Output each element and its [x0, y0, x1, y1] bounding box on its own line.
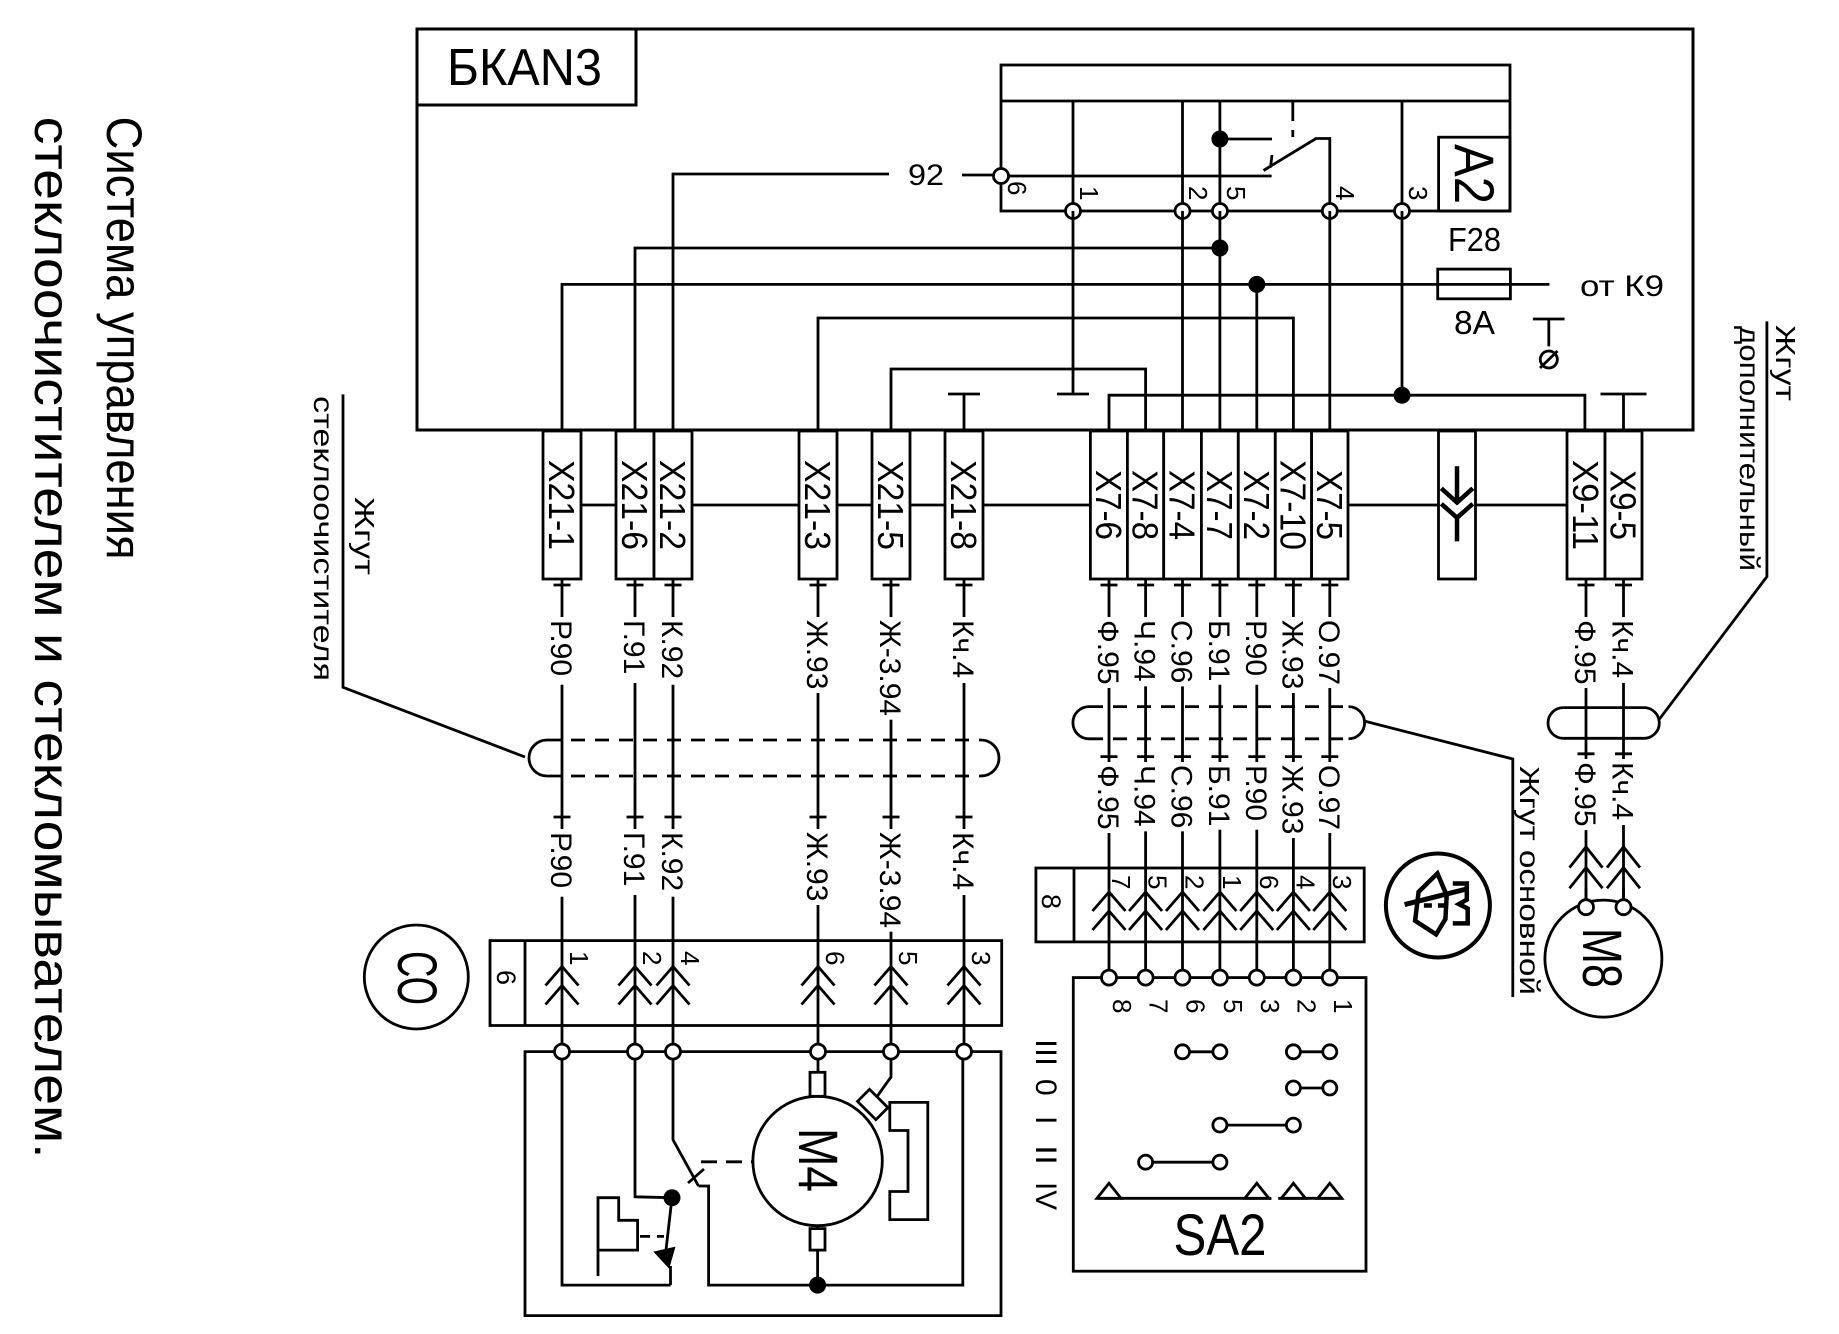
plug strip 8 contact at Р.90: [1240, 892, 1273, 930]
wire С.96 lower label: [1178, 762, 1187, 831]
wire К.92 lower label: [669, 829, 678, 897]
parking contact lead: [669, 1266, 672, 1285]
svg-text:Кч.4: Кч.4: [1606, 620, 1639, 678]
open-end symbol stem: [1547, 319, 1550, 346]
svg-text:X21-3: X21-3: [797, 460, 838, 550]
wire Ф.95 through plug 8: [1108, 868, 1111, 970]
svg-text:стеклоочистителя: стеклоочистителя: [308, 396, 339, 681]
relay A2 top divider: [1001, 100, 1510, 103]
relay pin 5 circle: [1212, 204, 1227, 219]
contact arm from K.92: [673, 1059, 699, 1186]
splice connector box: [1439, 431, 1476, 579]
svg-text:Система управления: Система управления: [96, 117, 152, 560]
wire Р.90 upper tick: [1248, 584, 1265, 587]
main harness capsule: [1073, 707, 1089, 739]
plug strip 6 contact at Г.91: [619, 967, 652, 1005]
svg-text:СО: СО: [386, 951, 449, 1005]
wire К.92 upper tick: [665, 584, 682, 587]
SA2 rotor triangle 1: [1097, 1183, 1121, 1198]
svg-text:Р.90: Р.90: [1239, 765, 1272, 821]
wire Ф.95 upper tick: [1578, 584, 1595, 587]
wire Ж-3.94 through plug 6: [890, 941, 893, 1045]
wiper harness leader: [343, 394, 525, 757]
svg-text:X21-6: X21-6: [614, 460, 655, 550]
relay pin 5 internal wire: [1219, 101, 1222, 211]
wire Б.91 upper tick: [1211, 584, 1228, 587]
svg-text:X7-2: X7-2: [1236, 470, 1277, 540]
connector pin X7-10 box: [1275, 431, 1311, 579]
wire Р.90 lower label: [558, 829, 567, 897]
wire С.96 upper segment: [1181, 579, 1184, 868]
svg-text:Ф.95: Ф.95: [1568, 620, 1601, 685]
motor M4 circle: [753, 1096, 882, 1225]
svg-text:92: 92: [908, 159, 944, 192]
svg-text:X7-10: X7-10: [1272, 460, 1313, 550]
connector pin X7-6 box: [1090, 431, 1127, 579]
svg-text:Жгут основной: Жгут основной: [1514, 766, 1545, 995]
motor unit pin circle at Г.91: [628, 1044, 643, 1059]
svg-text:3: 3: [1327, 875, 1357, 889]
svg-text:1: 1: [564, 951, 594, 965]
svg-text:2: 2: [1183, 186, 1213, 200]
additional harness capsule: [1548, 708, 1563, 739]
washer motor lead a: [1585, 888, 1588, 907]
svg-text:X7-4: X7-4: [1162, 470, 1203, 540]
connector pin X21-1 box: [543, 431, 581, 579]
wire G.91 inside unit: [635, 1059, 672, 1198]
svg-text:7: 7: [1106, 875, 1136, 889]
connector pin X7-4 box: [1164, 431, 1202, 579]
splice connector symbol: [1441, 466, 1473, 541]
svg-text:3: 3: [1255, 999, 1285, 1013]
plug strip 6 contact at Ж-3.94: [875, 967, 908, 1005]
wire Р.90 upper label: [558, 617, 567, 685]
main harness leader: [1365, 721, 1513, 997]
wire Ф.95 upper label: [1582, 617, 1591, 688]
svg-text:Ж.93: Ж.93: [1275, 620, 1308, 689]
wire Б.91 upper label: [1215, 617, 1224, 685]
wire Ч.94 upper segment: [1144, 579, 1147, 868]
wire Р.90 upper tick: [554, 584, 571, 587]
svg-text:5: 5: [893, 951, 923, 965]
svg-text:X21-1: X21-1: [541, 460, 582, 550]
wire Р.90 lower tick: [554, 816, 571, 819]
wire Кч.4 lower label: [1619, 759, 1628, 825]
junction X7-2 net: [1248, 276, 1265, 293]
motor unit pin circle at Ж.93: [811, 1044, 826, 1059]
wire Б.91 upper segment: [1219, 579, 1222, 868]
switch SA2 pin circle 3: [1249, 970, 1264, 985]
switch SA2 pin circle 1: [1322, 970, 1337, 985]
svg-text:Б.91: Б.91: [1202, 765, 1235, 826]
svg-text:3: 3: [966, 951, 996, 965]
terminator bar pin1: [1057, 393, 1089, 396]
mechanical link motor dashes: [701, 1160, 753, 1163]
svg-text:X9-5: X9-5: [1603, 470, 1644, 540]
wire pin4 down to X7-5: [1328, 211, 1331, 431]
wire Кч.4 upper tick: [1615, 584, 1632, 587]
svg-text:С.96: С.96: [1165, 765, 1198, 828]
wire Кч.4 upper label: [960, 617, 969, 683]
wire О.97 lower label: [1325, 762, 1334, 833]
wire Ф.95 upper tick: [1101, 584, 1118, 587]
wire О.97 lower tick: [1321, 755, 1338, 758]
wire О.97 upper tick: [1321, 584, 1338, 587]
relay pin 1 internal wire: [1072, 101, 1075, 211]
svg-text:3: 3: [1403, 186, 1433, 200]
relay A2 designator box: [1439, 137, 1510, 211]
svg-text:X7-6: X7-6: [1088, 470, 1129, 540]
wire О.97 upper segment: [1328, 579, 1331, 868]
connector pin X7-7 box: [1201, 431, 1238, 579]
svg-text:F28: F28: [1448, 221, 1501, 258]
svg-text:5: 5: [1143, 875, 1173, 889]
switch SA2 pin circle 7: [1138, 970, 1153, 985]
wiper harness capsule: [529, 740, 547, 776]
svg-text:4: 4: [1330, 186, 1360, 200]
svg-text:8: 8: [1107, 999, 1137, 1013]
washer motor lead b: [1622, 888, 1625, 907]
wire О.97 through plug 8: [1328, 868, 1331, 970]
svg-text:6: 6: [491, 970, 521, 985]
module BKAN3 outline: [417, 29, 1693, 430]
wire С.96 upper tick: [1174, 584, 1191, 587]
wire Ж-3.94 upper tick: [883, 584, 900, 587]
svg-text:Ф.95: Ф.95: [1091, 620, 1124, 685]
wire Ч.94 upper label: [1141, 617, 1150, 686]
wire К.92 upper segment: [672, 579, 675, 941]
svg-text:6: 6: [1181, 999, 1211, 1013]
wire Ж-3.94 upper label: [887, 617, 896, 720]
wire Ч.94 through plug 8: [1144, 868, 1147, 970]
wire Кч.4 upper label: [1619, 617, 1628, 683]
svg-text:Кч.4: Кч.4: [946, 620, 979, 678]
plug strip 8 contact at Ч.94: [1129, 892, 1162, 930]
svg-text:Б.91: Б.91: [1202, 620, 1235, 681]
svg-text:2: 2: [637, 951, 667, 965]
washer motor contact Ф.95: [1570, 847, 1603, 888]
plug strip 8 contact at Ф.95: [1093, 892, 1126, 930]
wire Г.91 upper tick: [627, 584, 644, 587]
terminator bar X21-8: [948, 393, 980, 396]
wire Р.90 through plug 8: [1255, 868, 1258, 970]
svg-text:IV: IV: [1029, 1182, 1062, 1210]
connector pin X9-5 box: [1605, 431, 1642, 579]
wire Р.90 through plug 6: [561, 941, 564, 1045]
svg-text:6: 6: [1254, 875, 1284, 889]
wire Г.91 upper label: [631, 617, 640, 683]
washer icon arm: [1405, 889, 1469, 905]
junction pin3 net: [1394, 387, 1411, 404]
wire pin2 down to X7-4: [1181, 211, 1184, 431]
washer pump designator circle CO: [364, 925, 468, 1029]
svg-text:X21-5: X21-5: [870, 460, 911, 550]
svg-text:6: 6: [820, 951, 850, 965]
svg-text:5: 5: [1221, 186, 1251, 200]
connector pin X7-2 box: [1238, 431, 1275, 579]
svg-text:Г.91: Г.91: [617, 620, 650, 674]
motor M4 top lead: [817, 1059, 820, 1096]
switch SA2 pin circle 2: [1286, 970, 1301, 985]
wire Кч.4 lower tick: [956, 816, 973, 819]
contact path to motor minus: [699, 1186, 818, 1285]
wire pin5 net down to X7-7: [1219, 211, 1222, 431]
wire Ж.93 upper label: [814, 617, 823, 693]
svg-text:Ж.93: Ж.93: [1275, 765, 1308, 834]
wire Кч.4 upper segment: [963, 579, 966, 941]
svg-text:III: III: [1029, 1039, 1062, 1066]
wire X7-2 branch: [1255, 284, 1258, 431]
svg-text:Г.91: Г.91: [617, 832, 650, 886]
SA2 position IV bar b: [1278, 1197, 1342, 1200]
wire X21-6 to relay pin 5: [635, 248, 1220, 431]
wire Р.90 lower label: [1252, 762, 1261, 830]
svg-text:Жгут: Жгут: [1770, 325, 1801, 401]
relay pin 2 circle: [1175, 204, 1190, 219]
switch SA2 pin circle 5: [1212, 970, 1227, 985]
SA2 rotor triangle 4: [1318, 1183, 1342, 1198]
wire К.92 lower tick: [665, 816, 682, 819]
plug strip 6 contact at Ж.93: [802, 967, 835, 1005]
wire Кч.4 lower tick: [1615, 752, 1632, 755]
wire X21-1 to fuse F28: [562, 284, 1438, 431]
wire Ч.94 lower label: [1141, 762, 1150, 831]
wire motor minus to pin 3: [818, 1059, 963, 1285]
wire Ж.93 upper tick: [1285, 584, 1302, 587]
svg-text:Кч.4: Кч.4: [1606, 762, 1639, 820]
relay pin 4 circle: [1322, 204, 1337, 219]
wire Ж.93 upper segment: [1292, 579, 1295, 868]
relay pin 3 internal wire: [1401, 101, 1404, 211]
washer icon dashes: [1424, 903, 1450, 908]
svg-text:К.92: К.92: [655, 832, 688, 891]
wire X21-8 stub: [963, 394, 966, 431]
motor M4 third brush terminal: [857, 1089, 887, 1119]
open-end symbol bar: [1533, 318, 1565, 321]
wire Ж.93 through plug 6: [817, 941, 820, 1045]
wire Г.91 lower label: [631, 829, 640, 895]
wire Ж.93 upper label: [1289, 617, 1298, 693]
wire Ж-3.94 lower label: [887, 829, 896, 932]
wire Кч.4 upper segment: [1622, 579, 1625, 900]
wire О.97 upper label: [1325, 617, 1334, 688]
svg-text:4: 4: [1290, 875, 1320, 889]
wire Ж.93 through plug 8: [1292, 868, 1295, 970]
relay contact NC wire from pin 6: [1001, 175, 1272, 178]
svg-text:4: 4: [675, 951, 705, 965]
relay contact NC tick: [1271, 155, 1273, 168]
motor M4 bottom terminal: [810, 1229, 825, 1251]
svg-text:6: 6: [1002, 181, 1032, 195]
wire X21-3 to X7-10: [818, 318, 1293, 431]
wire Ж.93 upper segment: [817, 579, 820, 941]
motor unit pin circle at Кч.4: [957, 1044, 972, 1059]
svg-text:5: 5: [1218, 999, 1248, 1013]
wire to K9: [1510, 283, 1549, 286]
wire Г.91 through plug 6: [634, 941, 637, 1045]
motor M8 terminal a: [1579, 900, 1594, 915]
motor M8 terminal b: [1616, 900, 1631, 915]
washer icon jet: [1453, 884, 1468, 924]
wire Ж.93 lower label: [1289, 762, 1298, 838]
wire С.96 through plug 8: [1181, 868, 1184, 970]
wire Ч.94 lower tick: [1137, 755, 1154, 758]
wire С.96 lower tick: [1174, 755, 1191, 758]
wire Ж.93 upper tick: [810, 584, 827, 587]
svg-text:2: 2: [1180, 875, 1210, 889]
svg-text:стеклоочистителем и стекломыва: стеклоочистителем и стекломывателем.: [24, 117, 80, 1159]
wire Ч.94 upper tick: [1137, 584, 1154, 587]
plug strip 6 box: [490, 941, 1002, 1026]
parking contact arm: [666, 1198, 672, 1250]
svg-text:Ж.93: Ж.93: [800, 832, 833, 901]
open-end symbol o-slash: [1540, 351, 1558, 368]
svg-text:Ч.94: Ч.94: [1128, 620, 1161, 682]
motor M4 bottom lead: [816, 1226, 819, 1285]
wire X9-5 stub: [1622, 394, 1625, 431]
motor unit pin circle at К.92: [666, 1044, 681, 1059]
wire Р.90 upper segment: [1255, 579, 1258, 868]
motor M4 third brush lead: [876, 1059, 891, 1098]
wire Р.90 lower tick: [1248, 755, 1265, 758]
svg-text:С.96: С.96: [1165, 620, 1198, 683]
SA2 position IV bar a: [1098, 1197, 1272, 1200]
svg-text:8: 8: [1036, 894, 1066, 909]
washer icon shield: [1415, 873, 1447, 934]
terminator bar X9-5: [1601, 393, 1647, 396]
plug strip 8 contact at Ж.93: [1277, 892, 1310, 930]
relay pin 2 internal wire: [1181, 101, 1184, 211]
wire Кч.4 through plug 6: [963, 941, 966, 1045]
fuse F28 body: [1438, 269, 1511, 299]
wire Г.91 upper segment: [634, 579, 637, 941]
motor unit pin circle at Р.90: [555, 1044, 570, 1059]
wire Ф.95 upper label: [1105, 617, 1114, 688]
wire Ж.93 lower label: [814, 829, 823, 905]
wire Б.91 lower label: [1215, 762, 1224, 830]
wire R.90 inside unit: [562, 1059, 671, 1285]
wire 92 to pin 6: [962, 174, 994, 177]
svg-text:1: 1: [1217, 875, 1247, 889]
svg-text:Жгут: Жгут: [349, 497, 380, 575]
wire Ф.95 lower label: [1105, 762, 1114, 833]
SA2 position II contacts: [1139, 1155, 1153, 1169]
svg-text:Кч.4: Кч.4: [946, 832, 979, 890]
connector pin X21-5 box: [872, 431, 910, 579]
wire Б.91 lower tick: [1211, 755, 1228, 758]
parking cam profile: [598, 1198, 638, 1276]
relay pin 1 circle: [1066, 204, 1081, 219]
svg-text:Р.90: Р.90: [544, 832, 577, 888]
motor M4 top terminal: [810, 1072, 825, 1096]
plug strip 8 contact at С.96: [1166, 892, 1199, 930]
motor M4 stator segment: [890, 1102, 928, 1219]
fuse F28 wire through: [1438, 283, 1511, 286]
svg-text:А2: А2: [1443, 144, 1506, 204]
wire Р.90 upper label: [1252, 617, 1261, 685]
wire Ф.95 lower label: [1582, 759, 1591, 830]
wire X21-5 to X7-8: [891, 369, 1146, 431]
wire Ж-3.94 upper segment: [890, 579, 893, 941]
svg-text:Ф.95: Ф.95: [1568, 762, 1601, 827]
svg-text:8А: 8А: [1454, 304, 1495, 341]
contact arm tick: [688, 1169, 704, 1183]
junction motor minus: [809, 1277, 826, 1294]
connector pin X21-6 box: [616, 431, 654, 579]
wire pin1 stub: [1072, 211, 1075, 394]
SA2 position 0 contacts: [1286, 1081, 1300, 1095]
wire Ф.95 lower tick: [1101, 755, 1118, 758]
plug strip 8 box: [1036, 868, 1364, 942]
svg-text:2: 2: [1291, 999, 1321, 1013]
svg-text:Ж.93: Ж.93: [800, 620, 833, 689]
svg-text:Р.90: Р.90: [1239, 620, 1272, 676]
svg-text:X7-8: X7-8: [1125, 470, 1166, 540]
motor unit pin circle at Ж-3.94: [884, 1044, 899, 1059]
relay actuation dashed link: [1291, 101, 1294, 137]
washer motor contact Кч.4: [1607, 847, 1640, 888]
switch SA2 box: [1073, 978, 1366, 1272]
plug strip 6 contact at Р.90: [546, 967, 579, 1005]
SA2 position I contacts: [1213, 1118, 1227, 1132]
connector rail: [562, 504, 1624, 507]
svg-text:Р.90: Р.90: [544, 620, 577, 676]
svg-text:X21-2: X21-2: [652, 460, 693, 550]
wire pin3 down: [1401, 211, 1404, 395]
wire Кч.4 lower label: [960, 829, 969, 895]
svg-text:БКАN3: БКАN3: [447, 39, 602, 97]
svg-text:0: 0: [1029, 1079, 1062, 1096]
plug strip 8 contact at Б.91: [1203, 892, 1236, 930]
svg-text:Ж-3.94: Ж-3.94: [873, 832, 906, 928]
relay pin 3 circle: [1395, 204, 1410, 219]
relay A2 outline: [1001, 65, 1510, 211]
SA2 position III contacts b: [1286, 1045, 1300, 1059]
SA2 rotor triangle 3: [1281, 1183, 1305, 1198]
svg-text:X21-8: X21-8: [943, 460, 984, 550]
relay pin 6 circle: [994, 169, 1009, 184]
svg-text:Ж-3.94: Ж-3.94: [873, 620, 906, 716]
motor M8 circle: [1545, 900, 1662, 1017]
relay contact NO segment: [1220, 138, 1272, 141]
svg-text:М8: М8: [1571, 928, 1634, 988]
connector pin X21-3 box: [799, 431, 837, 579]
wire Ф.95 upper segment: [1108, 579, 1111, 868]
parking contact arrow: [656, 1249, 674, 1267]
wire Ж.93 lower tick: [810, 816, 827, 819]
wire Р.90 upper segment: [561, 579, 564, 941]
svg-text:II: II: [1029, 1145, 1062, 1165]
svg-text:М4: М4: [787, 1128, 850, 1192]
svg-text:X7-7: X7-7: [1199, 470, 1240, 540]
wire К.92 upper label: [669, 617, 678, 685]
wire Ф.95 lower tick: [1578, 752, 1595, 755]
svg-text:I: I: [1029, 1116, 1062, 1124]
switch SA2 pin circle 6: [1175, 970, 1190, 985]
plug strip 8 divider: [1073, 868, 1076, 942]
junction pin5/X7-7 net: [1211, 240, 1228, 257]
svg-text:О.97: О.97: [1312, 765, 1345, 830]
plug strip 6 divider: [524, 941, 527, 1026]
SA2 position III contacts a: [1176, 1045, 1190, 1059]
wire net X7-6/pin3/X9-11: [1109, 395, 1585, 431]
svg-text:1: 1: [1074, 186, 1104, 200]
wire К.92 through plug 6: [672, 941, 675, 1045]
svg-text:от К9: от К9: [1580, 270, 1664, 303]
svg-text:К.92: К.92: [655, 620, 688, 679]
wire Кч.4 upper tick: [956, 584, 973, 587]
plug strip 6 contact at К.92: [657, 967, 690, 1005]
